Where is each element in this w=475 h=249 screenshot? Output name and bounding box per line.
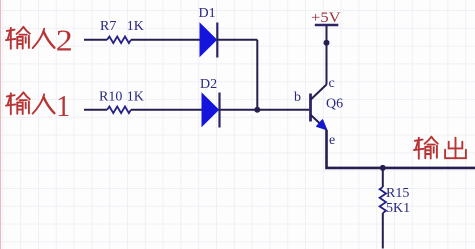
svg-text:b: b (294, 90, 301, 105)
svg-text:c: c (329, 76, 335, 91)
svg-text:R15: R15 (386, 186, 409, 201)
diode D1 (200, 23, 217, 58)
wire D2 cathode to junction (220, 109, 258, 111)
resistor R7 (107, 37, 131, 44)
wire input1 to R10 (84, 109, 107, 111)
svg-text:1: 1 (56, 88, 70, 123)
net label 输入1 (6, 92, 54, 114)
transistor Q6 (311, 85, 327, 130)
power +5V (311, 10, 341, 26)
junction on +5V wire (324, 40, 330, 46)
svg-text:D1: D1 (199, 6, 216, 21)
wire emitter down and output to right edge (327, 130, 475, 168)
wire R15 top (382, 168, 384, 187)
svg-text:2: 2 (56, 22, 73, 57)
wire corner down to junction (256, 40, 258, 110)
net label 输出 (414, 137, 466, 159)
wire D1 cathode to corner (217, 39, 257, 41)
wire R7 to D1 (131, 39, 200, 41)
net label 输入2 (6, 27, 54, 49)
svg-text:1K: 1K (127, 19, 144, 34)
wire R15 bottom (382, 213, 384, 249)
svg-text:Q6: Q6 (326, 97, 343, 112)
resistor R15 (380, 187, 386, 213)
wire R10 to D2 (131, 109, 202, 111)
wire junction to base (257, 109, 309, 111)
diode D2 (202, 93, 220, 128)
wire +5V bar down to collector (326, 26, 328, 85)
svg-text:+5V: +5V (311, 10, 341, 26)
junction output / R15 (380, 165, 386, 171)
svg-text:e: e (329, 133, 335, 148)
resistor R10 (107, 107, 131, 114)
svg-text:1K: 1K (127, 90, 144, 105)
svg-text:5K1: 5K1 (386, 201, 410, 216)
wire input2 to R7 (84, 39, 107, 41)
svg-text:D2: D2 (200, 77, 217, 92)
svg-text:R7: R7 (100, 19, 116, 34)
svg-text:R10: R10 (99, 90, 122, 105)
junction diode outputs (254, 107, 260, 113)
